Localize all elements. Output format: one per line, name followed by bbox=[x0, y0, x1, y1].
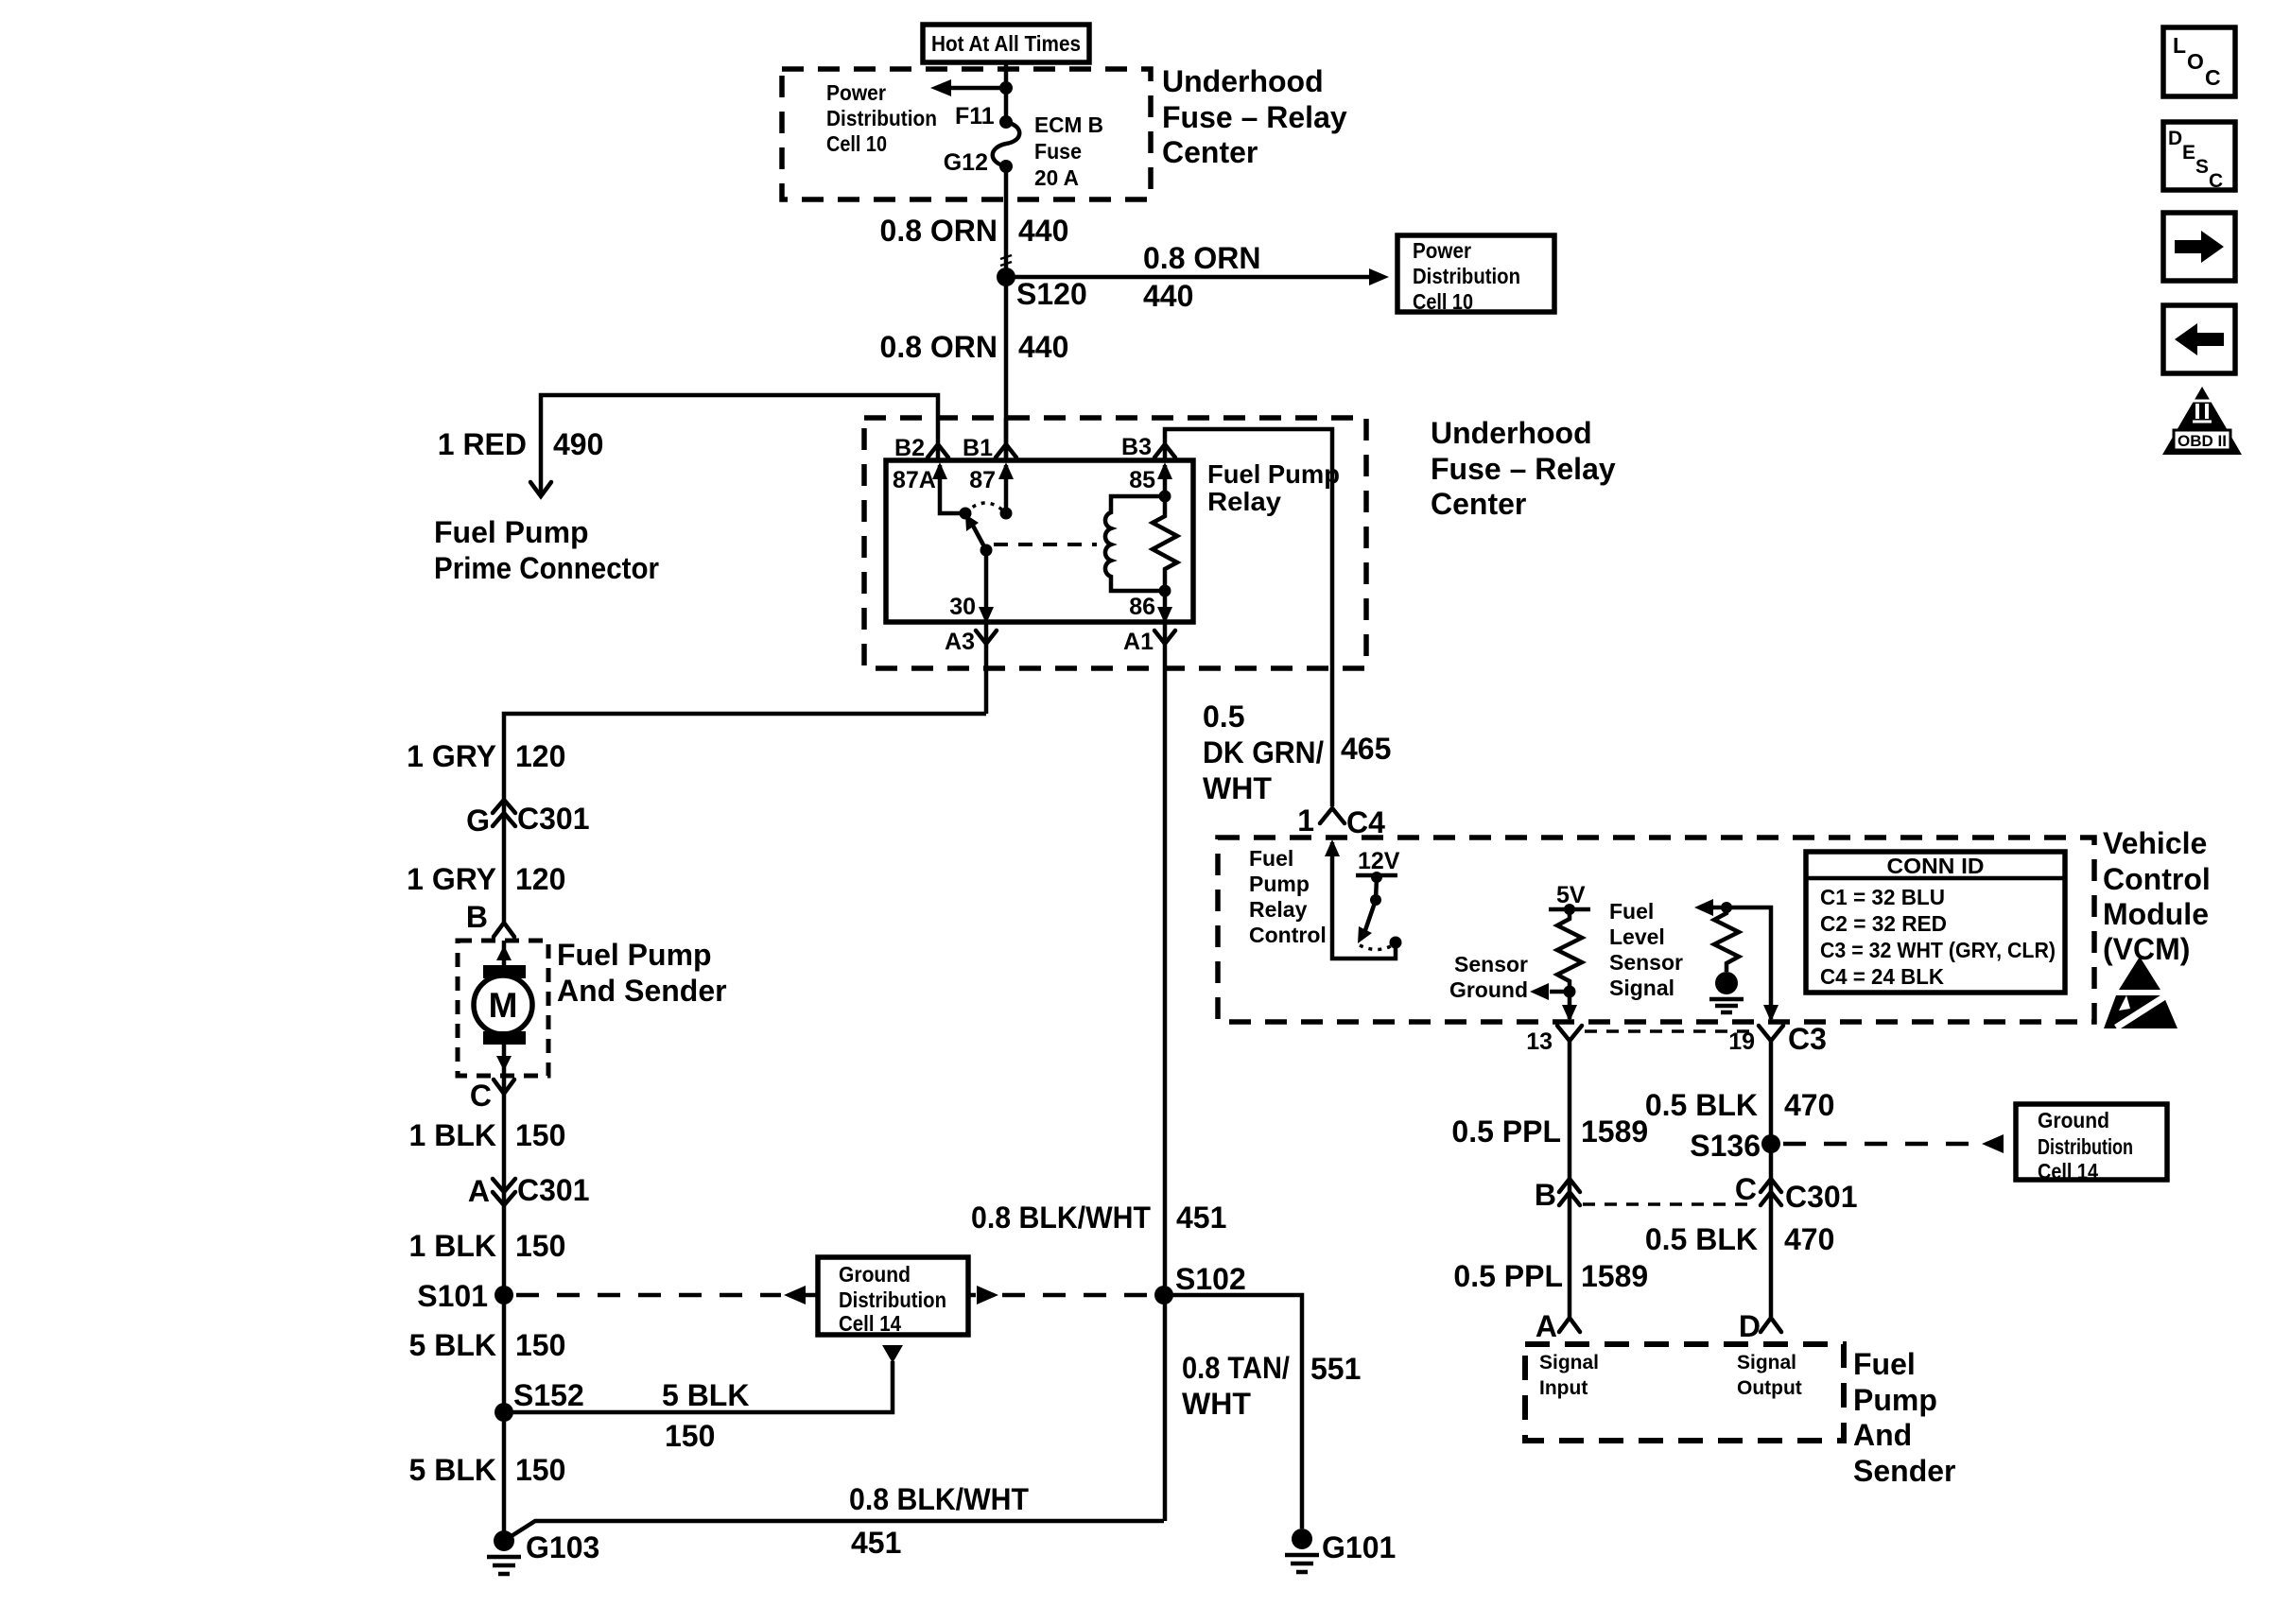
wire 451 BLK/WHT: relay A1 to S102 to G103 run bbox=[1163, 668, 1168, 1521]
svg-text:470: 470 bbox=[1784, 1222, 1834, 1256]
node S152 bbox=[495, 1378, 584, 1422]
connector C3 pin 19 (chevron) bbox=[1728, 1022, 1827, 1056]
wire relay 30/A3 exit bbox=[984, 622, 989, 714]
VCM internal pull-up resistor to ground bbox=[1709, 907, 1744, 1012]
node: junction at F11 feed bbox=[999, 81, 1013, 95]
svg-text:G12: G12 bbox=[944, 149, 988, 176]
node S120 bbox=[997, 268, 1087, 311]
reference box Power Distribution Cell 10 (right) bbox=[1397, 235, 1554, 314]
svg-text:Prime Connector: Prime Connector bbox=[434, 551, 659, 585]
battery feed label box "Hot At All Times" bbox=[923, 25, 1089, 62]
wire 150 BLK: pump C to G103 bbox=[502, 1076, 507, 1541]
node S102 bbox=[1154, 1262, 1246, 1304]
VCM 5V supply and sensor-ground pull-up resistor bbox=[1549, 882, 1590, 992]
svg-text:A: A bbox=[1536, 1309, 1557, 1343]
terminal A1 (chevron) bbox=[1123, 629, 1175, 655]
svg-text:C4 = 24 BLK: C4 = 24 BLK bbox=[1820, 964, 1944, 989]
svg-text:150: 150 bbox=[515, 1453, 565, 1487]
connector C301 pin B (double chevron) bbox=[1535, 1178, 1580, 1212]
label F11 bbox=[955, 103, 995, 130]
svg-text:C: C bbox=[470, 1079, 492, 1113]
svg-text:Distribution: Distribution bbox=[839, 1287, 946, 1312]
svg-text:(VCM): (VCM) bbox=[2103, 932, 2190, 966]
svg-text:451: 451 bbox=[1176, 1201, 1226, 1235]
svg-text:0.5 PPL: 0.5 PPL bbox=[1451, 1114, 1561, 1149]
svg-text:0.8 BLK/WHT: 0.8 BLK/WHT bbox=[849, 1482, 1029, 1516]
svg-text:A3: A3 bbox=[945, 629, 975, 655]
svg-text:Relay: Relay bbox=[1207, 487, 1281, 516]
underhood fuse-relay center box 2 (dashed) bbox=[864, 418, 1366, 668]
label 0.5 BLK 470 (upper) bbox=[1645, 1088, 1835, 1122]
VCM pin 13 exit wire bbox=[1562, 992, 1577, 1022]
svg-text:Control: Control bbox=[2103, 862, 2211, 896]
svg-text:C: C bbox=[2209, 170, 2223, 192]
svg-text:Cell 10: Cell 10 bbox=[1413, 289, 1473, 314]
wire: Hot At All Times to fuse F11 bbox=[1004, 62, 1009, 122]
svg-text:F11: F11 bbox=[955, 103, 995, 130]
label Fuel Pump Relay Control bbox=[1249, 846, 1327, 947]
svg-text:86: 86 bbox=[1129, 594, 1155, 620]
wire 470 BLK: pin 19 to sender D bbox=[1769, 1041, 1774, 1317]
svg-text:Center: Center bbox=[1431, 487, 1526, 521]
label Fuel Level Sensor Signal bbox=[1609, 899, 1683, 1000]
label 1 GRY 120 (lower) bbox=[407, 862, 565, 896]
fuel pump and sender box (dashed) bbox=[458, 941, 548, 1076]
reference box Ground Distribution Cell 14 (right) bbox=[2016, 1104, 2167, 1183]
svg-text:Fuel: Fuel bbox=[1609, 899, 1654, 924]
svg-text:D: D bbox=[2168, 128, 2182, 149]
label 0.8 BLK/WHT 451 (upper) bbox=[971, 1201, 1226, 1235]
svg-text:Pump: Pump bbox=[1853, 1383, 1937, 1417]
svg-text:1589: 1589 bbox=[1581, 1259, 1648, 1293]
svg-text:B: B bbox=[466, 900, 488, 934]
svg-text:0.8 ORN: 0.8 ORN bbox=[880, 330, 998, 364]
svg-text:Fuel: Fuel bbox=[1853, 1347, 1916, 1381]
node S101 bbox=[417, 1279, 513, 1313]
dashed link Ground Distribution Cell 14 to S102 bbox=[968, 1286, 1152, 1304]
icon OBD II badge bbox=[2162, 387, 2242, 455]
label Fuel Pump And Sender bbox=[557, 938, 727, 1008]
pin 30 lead bbox=[949, 550, 994, 624]
svg-text:Vehicle: Vehicle bbox=[2103, 826, 2207, 860]
label Vehicle Control Module (VCM) bbox=[2103, 826, 2211, 966]
icon prev-page arrow button bbox=[2163, 305, 2235, 373]
svg-text:87: 87 bbox=[969, 467, 996, 493]
svg-text:D: D bbox=[1739, 1309, 1761, 1343]
svg-text:85: 85 bbox=[1129, 467, 1155, 493]
svg-text:M: M bbox=[489, 986, 518, 1025]
wire 1589 PPL: pin 13 to sender A bbox=[1568, 1041, 1572, 1317]
connector C4 pin 1 (chevron) bbox=[1297, 803, 1385, 839]
svg-text:0.5 PPL: 0.5 PPL bbox=[1453, 1259, 1563, 1293]
svg-text:1 RED: 1 RED bbox=[438, 427, 527, 461]
fuel pump and sender box 2 (dashed) bbox=[1525, 1344, 1844, 1441]
svg-text:Ground: Ground bbox=[2038, 1108, 2109, 1132]
svg-text:30: 30 bbox=[949, 594, 976, 620]
terminal B2 (chevron) bbox=[894, 435, 948, 461]
svg-text:Signal: Signal bbox=[1609, 976, 1674, 1000]
svg-text:C301: C301 bbox=[517, 1173, 590, 1207]
svg-text:465: 465 bbox=[1341, 732, 1391, 766]
svg-text:Relay: Relay bbox=[1249, 897, 1308, 922]
svg-text:S102: S102 bbox=[1175, 1262, 1246, 1296]
svg-text:Sensor: Sensor bbox=[1454, 952, 1528, 976]
svg-text:DK GRN/: DK GRN/ bbox=[1203, 735, 1324, 769]
wire 440 ORN: fuse to S120 bbox=[1004, 166, 1009, 277]
label 0.8 ORN 440 (lower) bbox=[880, 330, 1069, 364]
reference box Ground Distribution Cell 14 (left) bbox=[818, 1257, 968, 1336]
dashed connector C3 face line bbox=[1585, 1029, 1755, 1033]
svg-text:1589: 1589 bbox=[1581, 1114, 1648, 1149]
dashed link S136 to Ground Distribution Cell 14 (right) bbox=[1783, 1134, 2004, 1153]
label 0.8 ORN 440 (branch) bbox=[1143, 241, 1260, 313]
svg-text:C1 = 32 BLU: C1 = 32 BLU bbox=[1820, 885, 1945, 909]
svg-text:B3: B3 bbox=[1121, 434, 1152, 460]
svg-text:Pump: Pump bbox=[1249, 872, 1310, 896]
svg-text:451: 451 bbox=[851, 1526, 901, 1560]
svg-text:0.5: 0.5 bbox=[1203, 700, 1244, 734]
svg-text:440: 440 bbox=[1143, 279, 1193, 313]
icon DESC button bbox=[2163, 122, 2235, 192]
terminal A3 (chevron) bbox=[945, 629, 997, 655]
svg-text:Input: Input bbox=[1539, 1377, 1588, 1399]
svg-text:C4: C4 bbox=[1346, 805, 1385, 839]
sensor ground arrow bbox=[1449, 952, 1576, 1002]
connector C3 pin 13 (chevron) bbox=[1526, 1026, 1582, 1055]
ESD sensitivity symbol bbox=[2104, 957, 2178, 1028]
svg-text:A1: A1 bbox=[1123, 629, 1154, 655]
label Underhood Fuse-Relay Center (top) bbox=[1162, 64, 1347, 169]
svg-text:Signal: Signal bbox=[1539, 1352, 1599, 1373]
label 0.8 ORN 440 (upper) bbox=[880, 214, 1069, 248]
svg-text:Fuel Pump: Fuel Pump bbox=[557, 938, 712, 972]
pin 87 contact bbox=[969, 462, 1014, 520]
label G12 bbox=[944, 149, 988, 176]
svg-text:120: 120 bbox=[515, 862, 565, 896]
svg-text:C3 = 32 WHT (GRY, CLR): C3 = 32 WHT (GRY, CLR) bbox=[1820, 938, 2056, 962]
svg-text:440: 440 bbox=[1018, 214, 1068, 248]
dotted arc between 87A and 87 bbox=[965, 503, 1006, 513]
label 1 BLK 150 (lower) bbox=[409, 1229, 566, 1263]
connector: sender pin D (chevron) bbox=[1739, 1309, 1781, 1343]
svg-text:B: B bbox=[1535, 1178, 1556, 1212]
dashed connector C301 face line bbox=[1583, 1202, 1757, 1206]
connector C301 pin A (double chevron) bbox=[468, 1173, 590, 1208]
svg-text:120: 120 bbox=[515, 739, 565, 773]
svg-text:Ground: Ground bbox=[1449, 977, 1528, 1002]
svg-text:Cell 14: Cell 14 bbox=[2038, 1159, 2098, 1183]
wire 451 BLK/WHT: G103 to S102 leg bbox=[504, 1521, 1164, 1541]
svg-text:WHT: WHT bbox=[1203, 771, 1272, 805]
connector C301 pin C (double chevron) bbox=[1735, 1172, 1858, 1214]
svg-text:Underhood: Underhood bbox=[1431, 416, 1592, 450]
svg-text:Distribution: Distribution bbox=[1413, 264, 1520, 288]
svg-text:Cell 10: Cell 10 bbox=[826, 131, 887, 156]
connector C301 pin G (double chevron) bbox=[466, 800, 589, 838]
svg-text:87A: 87A bbox=[893, 467, 936, 493]
svg-text:Fuse: Fuse bbox=[1034, 139, 1082, 164]
svg-text:0.5 BLK: 0.5 BLK bbox=[1645, 1222, 1758, 1256]
label 5 BLK 150 (S101-S152) bbox=[409, 1328, 566, 1362]
wire arrow to Power Distribution Cell 10 (left) bbox=[930, 79, 1006, 96]
label 1 RED 490 bbox=[438, 427, 604, 461]
svg-text:S136: S136 bbox=[1690, 1129, 1761, 1163]
label 1 GRY 120 (upper) bbox=[407, 739, 565, 773]
connector: fuel pump pin B (chevron) bbox=[466, 900, 514, 937]
svg-text:Underhood: Underhood bbox=[1162, 64, 1324, 98]
svg-text:And: And bbox=[1853, 1418, 1912, 1452]
svg-text:L: L bbox=[2173, 33, 2186, 58]
wire crossover ticks above S120 bbox=[1000, 255, 1012, 266]
svg-text:5 BLK: 5 BLK bbox=[409, 1328, 496, 1362]
label Signal Input bbox=[1539, 1352, 1599, 1399]
svg-text:1 GRY: 1 GRY bbox=[407, 739, 496, 773]
svg-text:Fuel Pump: Fuel Pump bbox=[1207, 459, 1340, 489]
svg-text:5 BLK: 5 BLK bbox=[409, 1453, 496, 1487]
label Fuel Pump And Sender (right) bbox=[1853, 1347, 1955, 1488]
label 5 BLK 150 (S152-G103) bbox=[409, 1453, 566, 1487]
svg-text:0.8 BLK/WHT: 0.8 BLK/WHT bbox=[971, 1201, 1151, 1235]
svg-text:0.8 ORN: 0.8 ORN bbox=[880, 214, 998, 248]
svg-text:Power: Power bbox=[826, 80, 886, 105]
svg-text:Fuse – Relay: Fuse – Relay bbox=[1431, 452, 1616, 486]
svg-text:1 BLK: 1 BLK bbox=[409, 1118, 496, 1152]
svg-text:490: 490 bbox=[553, 427, 603, 461]
underhood fuse-relay center box 1 (dashed) bbox=[782, 69, 1151, 199]
connector: fuel pump pin C (chevron) bbox=[470, 1079, 514, 1113]
svg-text:Center: Center bbox=[1162, 135, 1258, 169]
svg-text:5 BLK: 5 BLK bbox=[662, 1378, 749, 1412]
svg-text:WHT: WHT bbox=[1182, 1387, 1251, 1421]
relay coil bbox=[1105, 496, 1165, 591]
label 0.8 TAN/WHT 551 bbox=[1182, 1351, 1361, 1421]
svg-text:Cell 14: Cell 14 bbox=[839, 1311, 901, 1336]
svg-text:B1: B1 bbox=[963, 435, 993, 461]
svg-text:Ground: Ground bbox=[839, 1262, 911, 1287]
svg-text:150: 150 bbox=[665, 1419, 715, 1453]
label Power Distribution Cell 10 (left) bbox=[826, 80, 937, 156]
svg-text:440: 440 bbox=[1018, 330, 1068, 364]
svg-text:470: 470 bbox=[1784, 1088, 1834, 1122]
svg-text:12V: 12V bbox=[1358, 848, 1400, 874]
svg-text:0.5 BLK: 0.5 BLK bbox=[1645, 1088, 1758, 1122]
label ECM B Fuse 20 A bbox=[1034, 112, 1103, 190]
svg-text:Hot At All Times: Hot At All Times bbox=[931, 31, 1081, 56]
svg-text:Level: Level bbox=[1609, 924, 1665, 949]
svg-text:S152: S152 bbox=[513, 1378, 584, 1412]
svg-text:150: 150 bbox=[515, 1118, 565, 1152]
wire relay 86/A1 exit bbox=[1163, 622, 1168, 668]
svg-text:G: G bbox=[466, 803, 490, 838]
svg-text:1 GRY: 1 GRY bbox=[407, 862, 496, 896]
svg-text:S101: S101 bbox=[417, 1279, 488, 1313]
svg-text:150: 150 bbox=[515, 1229, 565, 1263]
label 0.5 PPL 1589 (upper) bbox=[1451, 1114, 1648, 1149]
svg-text:Fuse – Relay: Fuse – Relay bbox=[1162, 100, 1347, 134]
svg-text:20 A: 20 A bbox=[1034, 165, 1079, 190]
pin 85 lead bbox=[1129, 462, 1172, 503]
svg-text:13: 13 bbox=[1526, 1028, 1553, 1055]
pin 86 lead bbox=[1129, 585, 1172, 625]
svg-text:0.8 ORN: 0.8 ORN bbox=[1143, 241, 1260, 275]
svg-text:150: 150 bbox=[515, 1328, 565, 1362]
terminal B1 (chevron) bbox=[963, 435, 1016, 461]
svg-text:Signal: Signal bbox=[1737, 1352, 1796, 1373]
relay actuation dashed link bbox=[994, 543, 1097, 546]
wire 440 ORN: S120 to Power Distribution Cell 10 (right) bbox=[1006, 268, 1389, 285]
wire 465: B3 up-over-down to C4 bbox=[1165, 429, 1332, 806]
svg-text:S: S bbox=[2195, 156, 2209, 178]
svg-text:Control: Control bbox=[1249, 923, 1327, 947]
svg-text:Fuel Pump: Fuel Pump bbox=[434, 515, 589, 549]
VCM fuel level signal input bbox=[1694, 899, 1778, 1022]
ground G103 bbox=[487, 1530, 599, 1574]
label 0.8 BLK/WHT 451 (bottom) bbox=[849, 1482, 1029, 1560]
CONN ID table bbox=[1806, 852, 2065, 993]
label Fuel Pump Prime Connector bbox=[434, 515, 659, 585]
wire 551 TAN/WHT: S102 to G101 bbox=[1164, 1295, 1302, 1529]
svg-text:Fuel: Fuel bbox=[1249, 846, 1293, 871]
svg-text:Output: Output bbox=[1737, 1377, 1802, 1399]
svg-text:Sensor: Sensor bbox=[1609, 950, 1683, 975]
svg-text:C: C bbox=[2205, 65, 2221, 90]
svg-text:G103: G103 bbox=[526, 1530, 599, 1564]
relay switch arm (movable contact) bbox=[965, 514, 993, 557]
svg-text:C3: C3 bbox=[1788, 1022, 1827, 1056]
label Fuel Pump Relay bbox=[1207, 459, 1340, 516]
ground G101 bbox=[1285, 1529, 1396, 1572]
svg-text:C301: C301 bbox=[517, 802, 590, 836]
svg-text:1: 1 bbox=[1297, 803, 1314, 838]
node S136 bbox=[1690, 1129, 1780, 1163]
relay internal resistor bbox=[1153, 496, 1177, 591]
label Signal Output bbox=[1737, 1352, 1802, 1399]
fuel pump motor M1 bbox=[474, 941, 532, 1076]
svg-text:OBD II: OBD II bbox=[2178, 432, 2227, 450]
svg-text:C: C bbox=[1735, 1172, 1757, 1206]
dashed link S101 to Ground Distribution Cell 14 bbox=[516, 1286, 818, 1304]
pin 87A contact arm bbox=[893, 462, 972, 520]
label Underhood Fuse-Relay Center (relay) bbox=[1431, 416, 1616, 521]
wire relay B1 stub bbox=[1004, 418, 1009, 460]
svg-text:O: O bbox=[2187, 49, 2204, 74]
connector: Fuel Pump Prime Connector (chevron) bbox=[530, 482, 551, 496]
vehicle control module box (dashed) bbox=[1218, 838, 2094, 1022]
wire 490 RED: prime connector to relay B2 bbox=[541, 395, 938, 493]
wire 150 BLK: S152 branch to Ground Distribution bbox=[504, 1345, 903, 1453]
wire 440 ORN: S120 to relay B1 bbox=[1004, 277, 1009, 460]
relay K1 Fuel Pump Relay (solid box) bbox=[886, 460, 1193, 622]
svg-text:Distribution: Distribution bbox=[826, 106, 937, 130]
svg-text:E: E bbox=[2182, 142, 2195, 164]
VCM fuel pump relay control driver bbox=[1325, 839, 1402, 959]
svg-text:551: 551 bbox=[1310, 1352, 1361, 1386]
svg-text:Distribution: Distribution bbox=[2038, 1134, 2133, 1159]
svg-text:CONN ID: CONN ID bbox=[1887, 854, 1985, 878]
svg-text:C2 = 32 RED: C2 = 32 RED bbox=[1820, 911, 1947, 936]
svg-text:And Sender: And Sender bbox=[557, 974, 727, 1008]
svg-text:S120: S120 bbox=[1016, 277, 1087, 311]
svg-text:G101: G101 bbox=[1322, 1530, 1396, 1564]
label 0.5 BLK 470 (lower) bbox=[1645, 1222, 1835, 1256]
svg-text:C301: C301 bbox=[1785, 1180, 1858, 1214]
terminal B3 (chevron) bbox=[1121, 434, 1175, 460]
svg-text:Module: Module bbox=[2103, 897, 2209, 931]
wire relay B2 stub bbox=[936, 418, 941, 460]
icon next-page arrow button bbox=[2163, 213, 2235, 281]
fuse ECM B 20A (element) bbox=[993, 115, 1020, 173]
svg-text:ECM B: ECM B bbox=[1034, 112, 1103, 137]
label 0.5 DK GRN/WHT 465 bbox=[1203, 700, 1391, 805]
svg-text:Sender: Sender bbox=[1853, 1454, 1955, 1488]
svg-text:1 BLK: 1 BLK bbox=[409, 1229, 496, 1263]
svg-text:A: A bbox=[468, 1174, 490, 1208]
svg-text:0.8 TAN/: 0.8 TAN/ bbox=[1182, 1351, 1290, 1385]
label 1 BLK 150 (upper) bbox=[409, 1118, 566, 1152]
label 0.5 PPL 1589 (lower) bbox=[1453, 1259, 1648, 1293]
svg-text:B2: B2 bbox=[894, 435, 925, 461]
connector: sender pin A (chevron) bbox=[1536, 1309, 1580, 1343]
svg-text:Power: Power bbox=[1413, 238, 1471, 263]
icon LOC button bbox=[2163, 27, 2235, 96]
wire 120 GRY: relay A3 to fuel pump B bbox=[504, 714, 986, 922]
